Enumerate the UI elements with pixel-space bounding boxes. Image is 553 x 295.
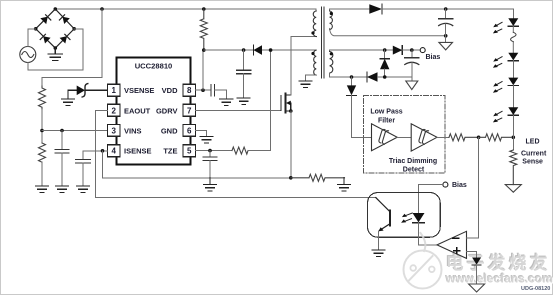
- node secondary lower phase dot: [330, 52, 333, 55]
- svg-text:ISENSE: ISENSE: [124, 147, 152, 156]
- AC source V1: [20, 47, 36, 63]
- wire bias return line: [378, 76, 412, 78]
- svg-text:LED: LED: [526, 138, 540, 145]
- svg-text:Sense: Sense: [522, 159, 543, 166]
- LED D6 emission arrows: [493, 57, 502, 68]
- node bias diode junction: [383, 48, 387, 52]
- svg-text:UCC28810: UCC28810: [135, 61, 173, 70]
- svg-text:5: 5: [187, 147, 192, 156]
- node Bias terminal (lower): [443, 182, 448, 187]
- optocoupler LED: [413, 213, 425, 223]
- node aux TZE junction: [269, 48, 273, 52]
- LED D8: [508, 107, 518, 115]
- wire rail drop to input divider: [42, 9, 102, 86]
- node rail to snubber resistor junction: [202, 7, 206, 11]
- wire VINS net to pin 3: [42, 130, 108, 132]
- node bridge left: [34, 27, 38, 31]
- wire top input rail: [55, 8, 310, 10]
- wire C2 to ground: [82, 163, 84, 186]
- pin 3 box: [108, 124, 121, 136]
- bridge rectifier diode D4 (bottom node to right): [55, 29, 74, 48]
- wire GDRV to gate: [196, 109, 282, 111]
- svg-text:2: 2: [111, 106, 116, 115]
- svg-text:VSENSE: VSENSE: [124, 86, 154, 95]
- wire dimming detect input: [352, 96, 372, 138]
- capacitor C6 output (polarized): [439, 9, 453, 42]
- capacitor C3 (TZE): [203, 151, 217, 178]
- wire op-amp non-inverting input: [467, 252, 477, 258]
- wire ISENSE sense return: [103, 151, 291, 178]
- capacitor C4 (VDD bypass): [211, 85, 214, 96]
- pin 1 box: [108, 84, 121, 96]
- LED D5 emission arrows: [493, 22, 502, 33]
- svg-text:3: 3: [111, 126, 116, 135]
- transformer aux winding: [306, 50, 317, 81]
- wire bias winding bottom line: [330, 76, 367, 78]
- wire output rail to LED string: [382, 9, 513, 18]
- pin 6 box: [183, 124, 196, 136]
- LED D5: [508, 18, 518, 26]
- IC U1 UCC28810 body: [117, 58, 191, 165]
- node bridge bottom: [54, 46, 58, 50]
- svg-text:VDD: VDD: [162, 86, 178, 95]
- wire secondary return: [330, 28, 446, 35]
- node TZE cap junction: [208, 149, 212, 153]
- resistor current sense (source): [291, 174, 345, 181]
- svg-text:Triac Dimming: Triac Dimming: [389, 158, 437, 165]
- resistor input divider upper: [39, 86, 46, 109]
- svg-text:Current: Current: [521, 150, 547, 157]
- wire C4 to ground: [214, 90, 226, 99]
- wire divider bottom to ground: [41, 162, 43, 186]
- wire AC bottom loop to bridge right node: [28, 29, 83, 70]
- resistor LED current sense: [510, 150, 517, 185]
- wire VDD pin lead: [196, 89, 212, 91]
- diode bias clamp (points up): [380, 50, 389, 77]
- wire VDD to aux rectifier: [202, 50, 204, 90]
- optocoupler phototransistor: [376, 198, 390, 232]
- ground under C5: [237, 98, 250, 104]
- wire detect output: [437, 136, 449, 138]
- node aux phase dot: [311, 52, 314, 55]
- diode reference (points down): [472, 258, 481, 265]
- ground stub on sense return: [204, 178, 217, 191]
- optocoupler U2 body: [368, 193, 441, 238]
- transformer primary winding: [311, 9, 317, 37]
- wire cap C1 bottom lead: [61, 153, 63, 186]
- svg-text:UDG-08120: UDG-08120: [521, 286, 550, 292]
- ground under aux winding: [299, 81, 312, 87]
- LED D7: [508, 78, 518, 86]
- node output cap junction: [444, 7, 448, 11]
- node VDD junction: [201, 88, 205, 92]
- node bias return junctions: [350, 75, 354, 79]
- transformer secondary winding lower (bias): [330, 50, 333, 77]
- node bias cap junction: [410, 48, 414, 52]
- pin 4 box: [108, 145, 121, 157]
- svg-text:GDRV: GDRV: [156, 106, 178, 115]
- pin 7 box: [183, 104, 196, 116]
- wire divider to op-amp inverting input: [467, 137, 479, 238]
- node bridge right: [72, 27, 76, 31]
- LED D6: [508, 53, 518, 61]
- resistor divider to LED string: [479, 134, 511, 141]
- wire LED string break: [512, 26, 514, 53]
- capacitor C2 (ISENSE filter): [76, 160, 90, 164]
- transformer secondary winding upper: [330, 9, 333, 30]
- capacitor C7 bias (polarized): [405, 50, 419, 81]
- svg-text:1: 1: [111, 86, 116, 95]
- wire bias node to terminal: [402, 49, 420, 51]
- ground under C1: [56, 186, 69, 192]
- pin 5 box: [183, 145, 196, 157]
- svg-text:Bias: Bias: [452, 182, 467, 189]
- capacitor C1 (VINS filter): [55, 150, 69, 154]
- node VINS cap junction: [60, 129, 64, 133]
- resistor snubber from rail: [200, 9, 207, 51]
- wire LED3-LED4: [512, 86, 514, 108]
- svg-text:8: 8: [187, 86, 192, 95]
- svg-text:TZE: TZE: [163, 147, 177, 156]
- capacitor C5 (aux): [237, 50, 251, 98]
- ground at GND pin: [200, 137, 213, 143]
- wire divider mid: [41, 110, 43, 144]
- ground for zener: [62, 90, 75, 105]
- svg-text:EAOUT: EAOUT: [124, 106, 151, 115]
- zener diode to VSENSE pin 1: [68, 84, 108, 97]
- diode bias return (points left): [367, 72, 378, 82]
- ground under C4: [220, 99, 233, 105]
- ground under optocoupler: [372, 250, 385, 256]
- ground below bridge: [48, 48, 63, 60]
- wire bias winding top line: [330, 49, 393, 51]
- pin 8 box: [183, 84, 196, 96]
- watermark logo circle: [404, 233, 442, 289]
- wire GND pin lead: [196, 130, 207, 136]
- op-amp U3: [437, 231, 467, 258]
- node snubber bottom junction: [202, 48, 206, 52]
- svg-text:VINS: VINS: [124, 126, 142, 135]
- svg-text:7: 7: [187, 106, 192, 115]
- bridge rectifier diode D1 (left node to top): [36, 9, 56, 29]
- node LED string sense junction: [512, 136, 516, 140]
- node bridge top junction: [54, 7, 58, 11]
- wire ISENSE pin lead: [83, 151, 108, 160]
- wire cap C1 top lead: [61, 131, 63, 150]
- svg-text:Low Pass: Low Pass: [370, 109, 402, 116]
- node primary phase dot: [311, 31, 314, 34]
- wire op-amp inverting input: [467, 237, 479, 239]
- bridge rectifier diode D2 (right node to top): [55, 9, 74, 29]
- LED D7 emission arrows: [493, 82, 502, 93]
- svg-text:4: 4: [111, 147, 116, 156]
- node source sense junction: [289, 176, 293, 180]
- resistor detect output upper: [449, 134, 477, 141]
- ground after source sense resistor: [338, 178, 351, 191]
- svg-text:Filter: Filter: [378, 118, 395, 125]
- ground (chassis triangle) reference: [469, 284, 485, 292]
- node divider junction: [477, 136, 481, 140]
- bridge rectifier diode D3 (bottom node to left): [36, 29, 56, 48]
- wire TZE to aux snubber node: [248, 50, 271, 151]
- wire secondary top to output diode: [330, 8, 370, 10]
- wire Bias to opto LED: [419, 185, 443, 213]
- diode bias rectifier (points right): [393, 46, 403, 55]
- ground (chassis triangle) LED string: [505, 185, 521, 193]
- wire AC top to bridge left node: [28, 29, 36, 47]
- wire LED2-LED3: [512, 61, 514, 78]
- node aux cap junction: [242, 48, 246, 52]
- amplifier A2 (detect): [411, 124, 437, 151]
- node secondary upper phase dot: [330, 12, 333, 15]
- ground under C2: [77, 186, 90, 192]
- wire between amplifiers: [397, 136, 411, 138]
- wire aux line: [204, 49, 316, 51]
- squiggle string continuation: [511, 32, 517, 41]
- svg-text:Detect: Detect: [403, 166, 425, 173]
- diode output rectifier: [369, 4, 382, 13]
- svg-text:6: 6: [187, 126, 192, 135]
- wire opto LED cathode to op-amp output: [419, 223, 438, 245]
- node Bias terminal (top): [420, 48, 425, 53]
- LED D8 emission arrows: [493, 111, 502, 122]
- node MOSFET source dot: [289, 109, 293, 113]
- wire LED4 to sense resistor: [512, 115, 514, 150]
- diode aux (points left): [253, 45, 262, 55]
- diode to dimming detect (points down): [347, 77, 356, 96]
- resistor TZE series: [232, 147, 248, 154]
- wire opto emitter to ground: [378, 231, 380, 250]
- ground (chassis triangle) under output cap: [439, 42, 453, 50]
- ground (chassis triangle) under bias cap: [406, 81, 418, 90]
- svg-text:www.elecfans.com: www.elecfans.com: [445, 272, 553, 286]
- wire TZE pin lead: [196, 150, 233, 152]
- pin 2 box: [108, 104, 121, 116]
- resistor input divider lower: [39, 143, 46, 162]
- wire reference to ground: [476, 265, 478, 284]
- wire source to sense: [290, 111, 292, 178]
- wire drain to primary: [291, 37, 316, 96]
- transistor Q1 MOSFET: [281, 94, 291, 113]
- wire EAOUT feedback bus: [96, 110, 376, 197]
- transformer T1 core: [322, 7, 324, 78]
- dashed block Triac Dimming Detect: [364, 96, 446, 174]
- svg-text:Bias: Bias: [426, 54, 441, 61]
- node rail to divider junction: [100, 7, 104, 11]
- optocoupler coupling arrows: [401, 213, 412, 223]
- amplifier A1 (low pass): [372, 124, 398, 151]
- node divider mid junction: [40, 129, 44, 133]
- ground under input divider: [36, 186, 49, 192]
- svg-text:GND: GND: [161, 126, 178, 135]
- node ISENSE junction: [101, 149, 105, 153]
